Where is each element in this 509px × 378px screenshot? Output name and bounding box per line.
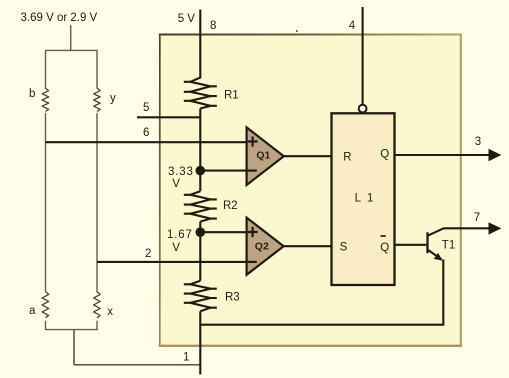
svg-text:Q: Q bbox=[380, 242, 389, 254]
svg-text:S: S bbox=[340, 242, 348, 254]
svg-text:6: 6 bbox=[143, 127, 149, 139]
svg-text:3.69 V or 2.9 V: 3.69 V or 2.9 V bbox=[21, 12, 98, 24]
svg-text:y: y bbox=[110, 92, 116, 104]
svg-text:4: 4 bbox=[349, 20, 356, 32]
svg-text:T1: T1 bbox=[442, 239, 455, 251]
svg-text:b: b bbox=[29, 88, 35, 100]
svg-text:5: 5 bbox=[143, 102, 149, 114]
svg-text:Q1: Q1 bbox=[256, 150, 270, 162]
svg-text:7: 7 bbox=[474, 212, 480, 224]
svg-text:R2: R2 bbox=[223, 200, 238, 212]
svg-text:L 1: L 1 bbox=[355, 192, 375, 204]
svg-text:3.33: 3.33 bbox=[168, 166, 194, 178]
svg-text:R3: R3 bbox=[225, 292, 240, 304]
svg-text:Q: Q bbox=[380, 149, 389, 161]
svg-text:R1: R1 bbox=[224, 89, 239, 101]
svg-text:3: 3 bbox=[475, 136, 481, 148]
svg-text:1.67: 1.67 bbox=[167, 229, 193, 241]
svg-text:1: 1 bbox=[183, 352, 189, 364]
svg-text:V: V bbox=[172, 242, 180, 254]
svg-text:R: R bbox=[343, 152, 351, 164]
svg-text:V: V bbox=[172, 178, 180, 190]
svg-text:8: 8 bbox=[210, 20, 216, 32]
svg-text:5 V: 5 V bbox=[178, 13, 196, 25]
svg-text:a: a bbox=[29, 305, 36, 317]
svg-text:x: x bbox=[107, 306, 113, 318]
svg-text:2: 2 bbox=[145, 248, 151, 260]
svg-text:Q2: Q2 bbox=[255, 241, 269, 253]
